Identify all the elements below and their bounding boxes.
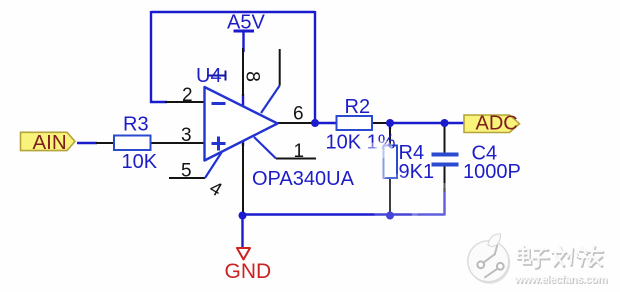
svg-text:AIN: AIN [33,131,67,154]
svg-text:2: 2 [182,85,193,106]
svg-text:www.elecfans.com: www.elecfans.com [514,274,608,286]
svg-text:3: 3 [181,125,192,146]
svg-text:8: 8 [241,71,263,82]
svg-text:OPA340UA: OPA340UA [252,168,355,190]
svg-text:6: 6 [293,104,304,125]
svg-text:5: 5 [181,161,192,182]
svg-text:1: 1 [294,141,305,162]
svg-text:A5V: A5V [227,12,265,34]
svg-text:GND: GND [225,260,272,283]
svg-text:R2: R2 [345,96,371,118]
svg-text:R3: R3 [123,114,149,136]
svg-text:10K: 10K [122,151,158,173]
svg-text:1000P: 1000P [463,161,521,183]
svg-text:U4: U4 [196,65,222,87]
svg-text:ADC: ADC [476,113,518,135]
